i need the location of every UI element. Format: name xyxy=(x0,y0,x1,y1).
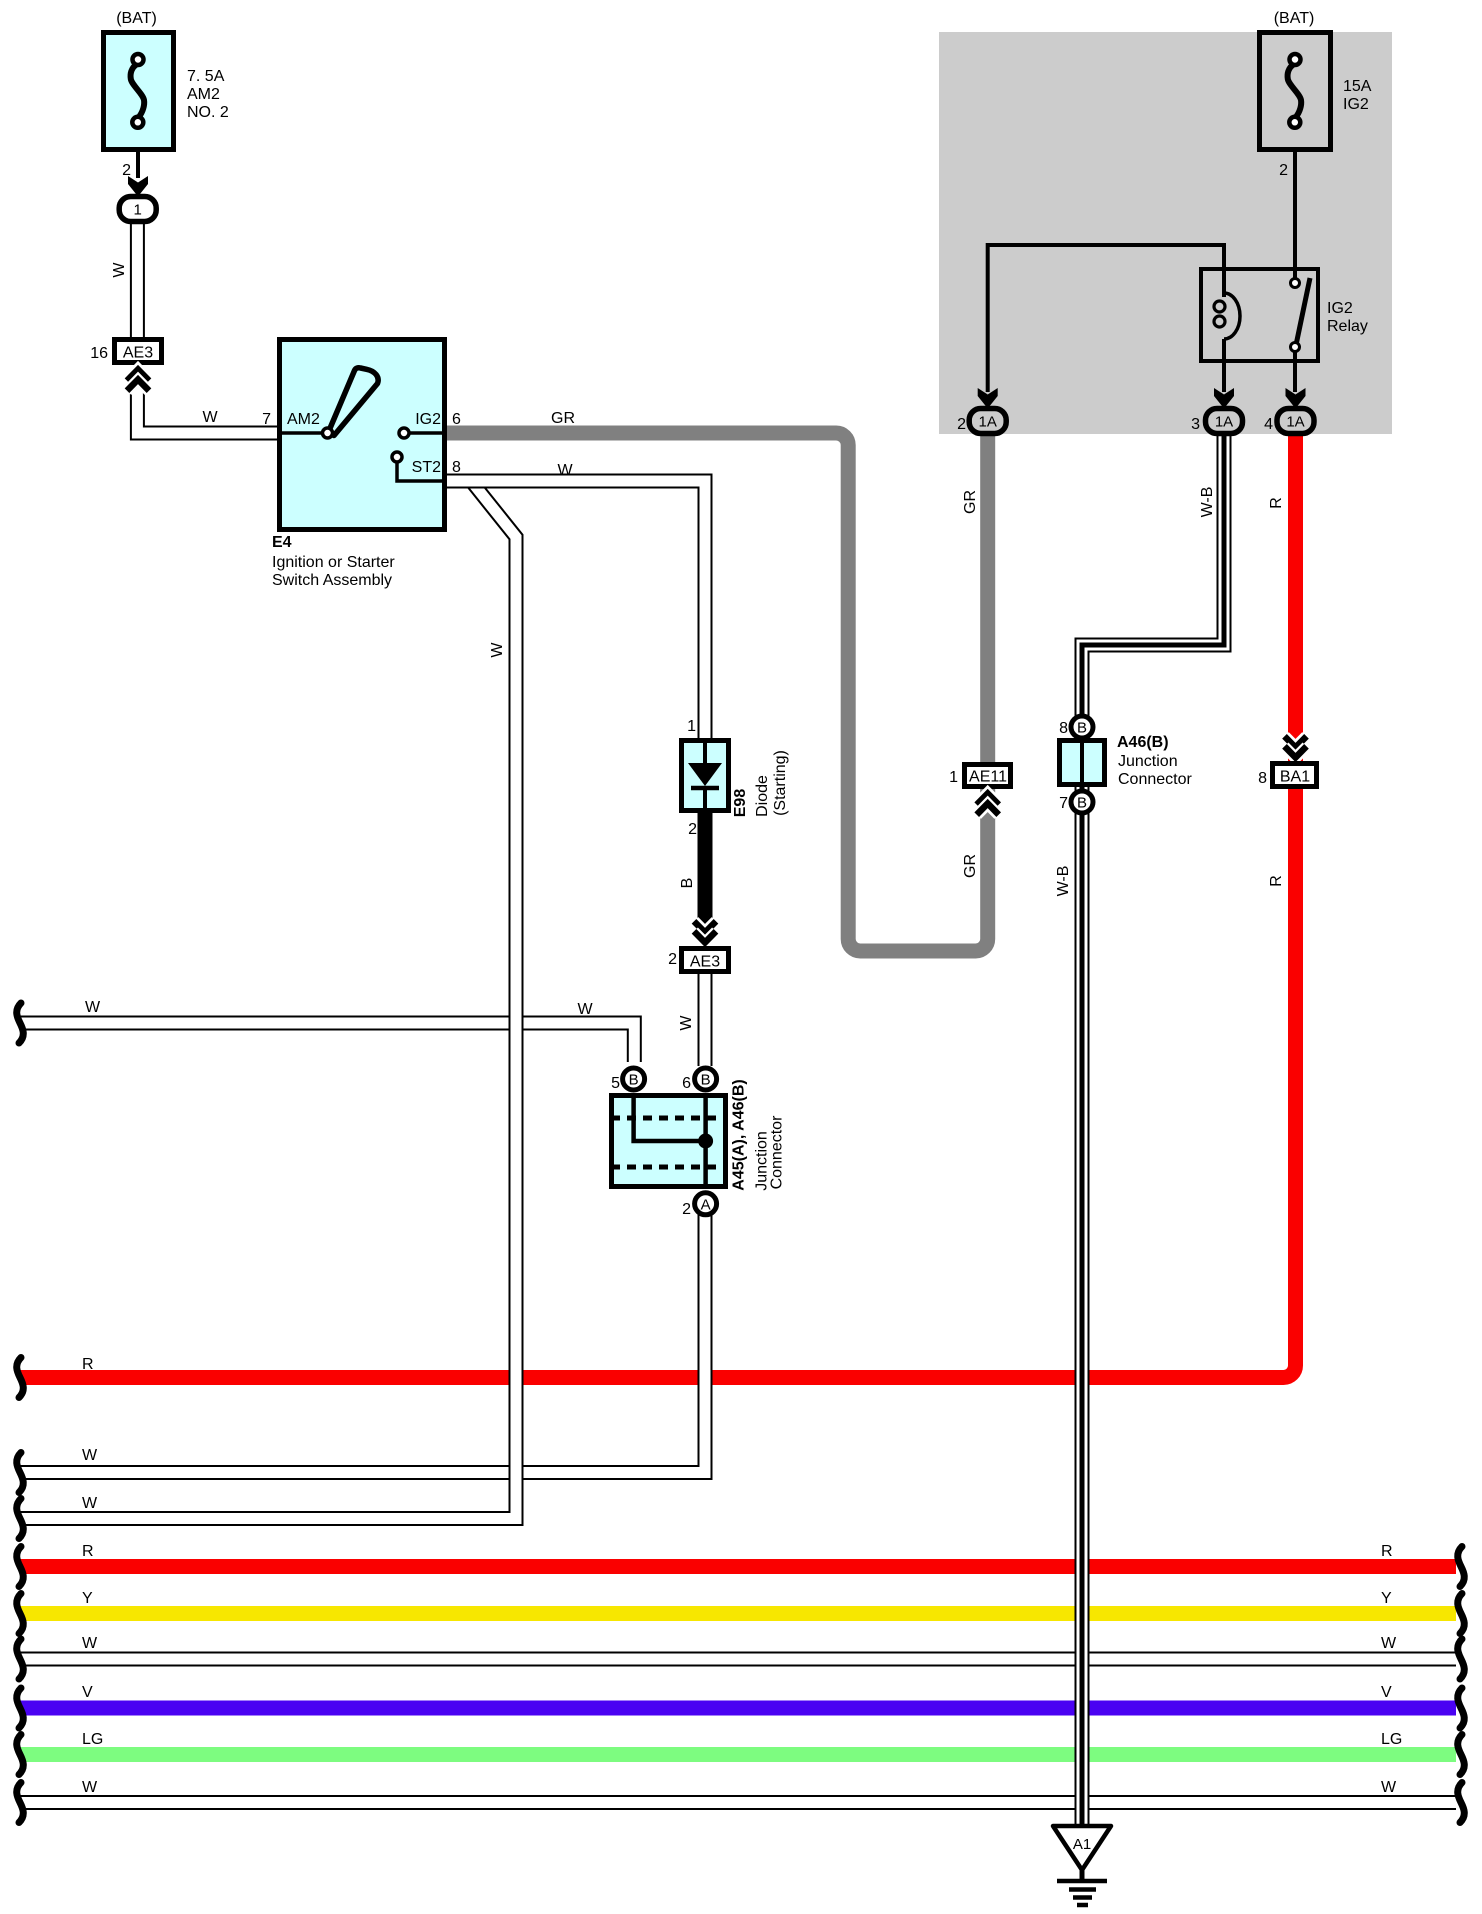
svg-text:Relay: Relay xyxy=(1327,318,1368,335)
connector oval 1A pin4 xyxy=(1277,409,1314,434)
A46(B) pin 8 circle B xyxy=(1071,716,1093,738)
wire W horizontal to junction pin 5 xyxy=(20,1023,634,1062)
svg-text:R: R xyxy=(1381,1543,1393,1560)
svg-text:6: 6 xyxy=(452,411,461,428)
wire fuse IG2 pin2 down to relay switch xyxy=(1293,150,1297,285)
svg-text:16: 16 xyxy=(90,345,108,362)
svg-text:NO. 2: NO. 2 xyxy=(187,104,229,121)
wire W from AE3(2) to junction pin 6 xyxy=(698,972,713,1066)
svg-text:Ignition or Starter: Ignition or Starter xyxy=(272,554,395,571)
svg-text:Connector: Connector xyxy=(769,1115,786,1189)
svg-text:1: 1 xyxy=(687,718,696,735)
E4 ignition switch box xyxy=(280,340,445,530)
svg-text:Diode: Diode xyxy=(754,775,771,817)
junction box AE3 pin16 xyxy=(115,340,162,363)
chevron up under AE11 xyxy=(977,794,999,815)
svg-text:R: R xyxy=(82,1356,94,1373)
svg-text:1A: 1A xyxy=(1215,414,1233,431)
wire W horizontal row 3 xyxy=(20,1652,1456,1667)
junction box AE11 xyxy=(965,765,1011,787)
fuse AM2 NO.2 box xyxy=(104,33,174,150)
svg-text:W: W xyxy=(1381,1779,1397,1796)
svg-text:E4: E4 xyxy=(272,534,292,551)
svg-text:R: R xyxy=(82,1543,94,1560)
svg-text:IG2: IG2 xyxy=(1343,96,1369,113)
svg-text:Switch Assembly: Switch Assembly xyxy=(272,572,392,589)
wire R horizontal bottom row (full width) xyxy=(20,1559,1456,1574)
svg-text:IG2: IG2 xyxy=(1327,300,1353,317)
arrow into 1A pin3 xyxy=(1214,388,1234,409)
svg-text:1: 1 xyxy=(949,769,958,786)
svg-text:2: 2 xyxy=(957,416,966,433)
svg-text:AE11: AE11 xyxy=(969,769,1007,786)
svg-text:(Starting): (Starting) xyxy=(772,750,789,816)
svg-text:GR: GR xyxy=(962,490,979,514)
svg-text:B: B xyxy=(629,1072,639,1089)
svg-text:ST2: ST2 xyxy=(412,459,441,476)
junction pin 6 circle B xyxy=(695,1068,717,1090)
svg-text:GR: GR xyxy=(551,410,575,427)
svg-text:5: 5 xyxy=(611,1075,620,1092)
svg-text:2: 2 xyxy=(1279,162,1288,179)
svg-text:V: V xyxy=(82,1684,93,1701)
svg-text:V: V xyxy=(1381,1684,1392,1701)
junction pin 2 circle A xyxy=(695,1193,717,1215)
svg-text:(BAT): (BAT) xyxy=(116,10,157,27)
E4 AM2 pin line xyxy=(282,431,321,435)
svg-text:4: 4 xyxy=(1264,416,1273,433)
svg-text:E98: E98 xyxy=(732,789,749,818)
svg-text:8: 8 xyxy=(1059,720,1068,737)
junction pin 5 circle B xyxy=(623,1068,645,1090)
A46(B) divider xyxy=(1080,740,1084,785)
svg-text:W: W xyxy=(489,642,506,658)
svg-text:7: 7 xyxy=(1059,795,1068,812)
svg-text:B: B xyxy=(701,1072,711,1089)
svg-text:AE3: AE3 xyxy=(123,345,153,362)
junction box BA1 xyxy=(1273,764,1317,787)
E4 key wedge xyxy=(330,368,379,436)
chevron up under AE3 xyxy=(127,370,149,391)
arrow into 1A pin2 xyxy=(978,388,998,409)
svg-text:W: W xyxy=(678,1015,695,1031)
arrow into 1A pin4 xyxy=(1286,388,1306,409)
svg-text:8: 8 xyxy=(1258,770,1267,787)
gray engine-room background box xyxy=(939,32,1392,434)
svg-text:Connector: Connector xyxy=(1118,771,1192,788)
svg-text:6: 6 xyxy=(682,1075,691,1092)
arrow into connector 1 xyxy=(128,176,148,197)
svg-text:7. 5A: 7. 5A xyxy=(187,68,225,85)
relay coil xyxy=(1224,293,1240,339)
svg-text:A: A xyxy=(701,1197,711,1214)
svg-text:3: 3 xyxy=(1191,416,1200,433)
chevron down above BA1 xyxy=(1285,736,1307,757)
diode symbol xyxy=(703,741,707,764)
svg-text:2: 2 xyxy=(122,162,131,179)
svg-text:7: 7 xyxy=(262,411,271,428)
svg-text:W-B: W-B xyxy=(1055,866,1072,897)
svg-text:W: W xyxy=(202,409,218,426)
IG2 relay box xyxy=(1201,269,1318,361)
junction connector A46(B) box xyxy=(1060,741,1105,785)
wire relay coil to 1A pin3 xyxy=(1222,339,1226,392)
wire LG horizontal xyxy=(20,1747,1456,1762)
svg-text:1: 1 xyxy=(134,202,142,219)
junction internal dashed lines xyxy=(611,1116,726,1121)
svg-text:LG: LG xyxy=(82,1731,103,1748)
wire GR from E4 IG2 pin6 to connector 1A pin2 xyxy=(447,433,988,951)
svg-text:B: B xyxy=(1077,795,1087,812)
svg-text:2: 2 xyxy=(688,821,697,838)
svg-text:W: W xyxy=(82,1495,98,1512)
svg-text:W: W xyxy=(1381,1635,1397,1652)
wire fuse AM2 pin2 to arrow xyxy=(136,150,140,178)
svg-text:Y: Y xyxy=(82,1590,93,1607)
svg-text:A45(A), A46(B): A45(A), A46(B) xyxy=(731,1079,748,1190)
A46(B) pin 7 circle B xyxy=(1071,791,1093,813)
relay switch pins xyxy=(1291,279,1300,288)
svg-text:W: W xyxy=(82,1779,98,1796)
fuse AM2 element xyxy=(131,64,145,118)
wire W-B from relay 1A pin3 to ground A1 xyxy=(1082,433,1224,1824)
svg-text:Junction: Junction xyxy=(1118,753,1178,770)
svg-text:R: R xyxy=(1268,875,1285,887)
fuse IG2 box xyxy=(1260,33,1331,150)
svg-text:GR: GR xyxy=(962,854,979,878)
connector oval 1A pin3 xyxy=(1206,409,1243,434)
diode E98 box xyxy=(682,741,729,811)
svg-text:BA1: BA1 xyxy=(1280,769,1310,786)
svg-text:A1: A1 xyxy=(1073,1836,1091,1853)
break squiggles right edge xyxy=(1458,1547,1465,1823)
svg-text:(BAT): (BAT) xyxy=(1274,10,1315,27)
wire V horizontal xyxy=(20,1701,1456,1716)
fuse IG2 element xyxy=(1288,64,1302,118)
svg-text:LG: LG xyxy=(1381,1731,1402,1748)
svg-text:W: W xyxy=(85,999,101,1016)
svg-text:W-B: W-B xyxy=(1199,487,1216,518)
connector oval 1 xyxy=(119,197,156,222)
svg-text:R: R xyxy=(1268,497,1285,509)
junction node dot xyxy=(698,1134,713,1149)
wire W from ST2 pin8 to diode E98 pin1 xyxy=(447,481,705,745)
svg-text:15A: 15A xyxy=(1343,78,1372,95)
wire W from AE3 chevron to E4 AM2 pin7 xyxy=(137,385,280,433)
break squiggles left edge xyxy=(17,1003,24,1823)
wire W branch from ST2 diagonal down then left to break xyxy=(20,482,516,1519)
svg-text:1A: 1A xyxy=(1286,414,1304,431)
svg-text:1A: 1A xyxy=(979,414,997,431)
svg-text:AE3: AE3 xyxy=(690,954,720,971)
junction box AE3 pin2 xyxy=(682,949,729,972)
svg-text:B: B xyxy=(679,878,696,889)
wire relay switch to 1A pin4 xyxy=(1293,350,1297,392)
svg-text:W: W xyxy=(82,1635,98,1652)
connector oval 1A pin2 xyxy=(969,409,1006,434)
wire W from junction pin2 down then left to break xyxy=(20,1212,705,1473)
E4 ST2 pin circle + line xyxy=(392,452,402,462)
svg-text:Y: Y xyxy=(1381,1590,1392,1607)
wire B diode E98 pin2 down to chevron xyxy=(698,810,713,925)
junction connector A45(A),A46(B) box xyxy=(612,1096,726,1187)
junction internal wires xyxy=(634,1095,706,1141)
wire relay coil branch to connector 1A pin2 xyxy=(988,245,1224,392)
E4 AM2 pivot circle xyxy=(323,428,333,438)
svg-text:2: 2 xyxy=(682,1201,691,1218)
ground bars xyxy=(1057,1879,1107,1884)
wire Y horizontal xyxy=(20,1606,1456,1621)
svg-text:A46(B): A46(B) xyxy=(1117,734,1169,751)
wire W fuse AM2 to AE3 xyxy=(130,220,145,340)
chevron down on B wire xyxy=(694,921,716,942)
svg-text:W: W xyxy=(82,1447,98,1464)
wire R from IG2 relay pin4 down and left to break xyxy=(20,433,1296,1378)
svg-text:W: W xyxy=(111,262,128,278)
wire W horizontal row 4 (bottom) xyxy=(20,1795,1456,1810)
E4 IG2 pin circle + line xyxy=(399,428,409,438)
svg-text:W: W xyxy=(557,462,573,479)
svg-text:W: W xyxy=(577,1001,593,1018)
ground A1 triangle xyxy=(1053,1826,1111,1870)
svg-text:IG2: IG2 xyxy=(415,411,441,428)
svg-text:8: 8 xyxy=(452,459,461,476)
svg-text:AM2: AM2 xyxy=(187,86,220,103)
svg-text:2: 2 xyxy=(668,951,677,968)
svg-text:B: B xyxy=(1077,720,1087,737)
svg-text:AM2: AM2 xyxy=(287,411,320,428)
